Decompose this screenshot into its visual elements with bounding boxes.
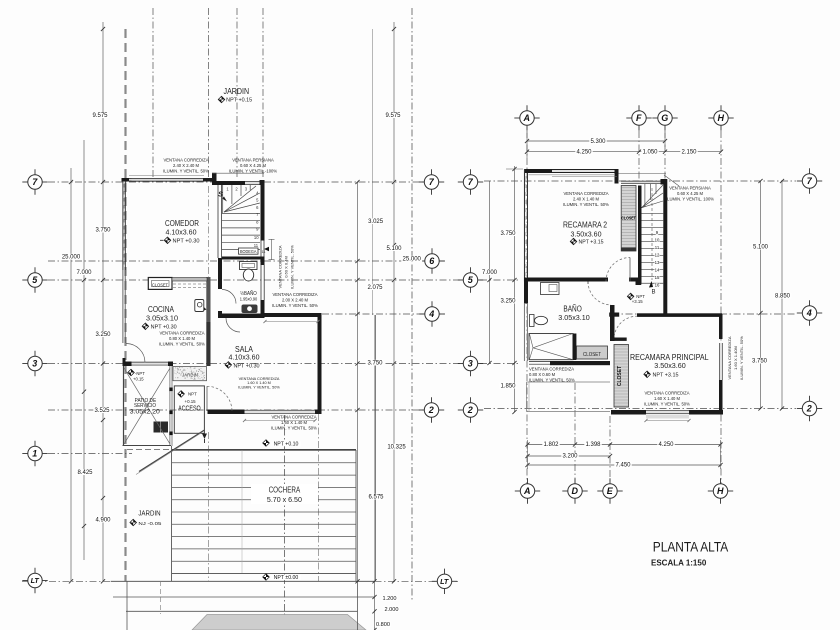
svg-text:15: 15 <box>655 275 660 280</box>
svg-text:3.200: 3.200 <box>562 454 578 460</box>
svg-text:G: G <box>661 113 668 123</box>
svg-text:A: A <box>522 113 530 123</box>
svg-text:CLOSET: CLOSET <box>621 216 636 222</box>
svg-text:3: 3 <box>468 359 473 369</box>
svg-text:14: 14 <box>655 268 660 273</box>
svg-text:4.250: 4.250 <box>658 442 674 448</box>
svg-text:ILUMIN. Y VENTIL. 50%: ILUMIN. Y VENTIL. 50% <box>739 336 744 380</box>
svg-text:A: A <box>523 486 531 496</box>
svg-text:ILUMIN. Y VENTIL.-100%: ILUMIN. Y VENTIL.-100% <box>229 169 278 174</box>
svg-text:ILUMIN. Y VENTIL. 50%: ILUMIN. Y VENTIL. 50% <box>159 342 205 347</box>
svg-text:NJ -0.05: NJ -0.05 <box>138 521 161 527</box>
svg-text:2.00 X 2.40 M: 2.00 X 2.40 M <box>282 298 309 303</box>
svg-text:10: 10 <box>254 235 259 240</box>
svg-text:D: D <box>571 486 578 496</box>
svg-text:7.000: 7.000 <box>482 270 498 276</box>
svg-text:4: 4 <box>428 309 434 319</box>
svg-text:16: 16 <box>655 283 660 288</box>
svg-text:25.000: 25.000 <box>403 257 422 263</box>
svg-text:JARDIN: JARDIN <box>138 508 160 517</box>
svg-text:VENTANA CORREDIZA: VENTANA CORREDIZA <box>163 158 208 163</box>
svg-text:1.95x0.90: 1.95x0.90 <box>240 296 258 301</box>
svg-text:COCHERA: COCHERA <box>269 485 301 494</box>
svg-text:9.575: 9.575 <box>385 113 401 119</box>
svg-text:5.300: 5.300 <box>590 139 606 145</box>
svg-text:ILUMIN. Y VENTIL. 50%: ILUMIN. Y VENTIL. 50% <box>272 303 318 308</box>
svg-text:8.850: 8.850 <box>775 294 791 300</box>
svg-text:VENTANA PERSIANA: VENTANA PERSIANA <box>232 158 274 163</box>
svg-text:JARDIN: JARDIN <box>182 372 198 378</box>
svg-text:5.100: 5.100 <box>753 245 769 251</box>
svg-text:3.05x2.20: 3.05x2.20 <box>130 409 160 416</box>
svg-text:LT: LT <box>440 577 449 586</box>
svg-text:5.70 x 6.50: 5.70 x 6.50 <box>267 495 302 504</box>
svg-text:3.50x3.60: 3.50x3.60 <box>654 361 685 370</box>
svg-text:BODEGA: BODEGA <box>240 249 257 254</box>
svg-text:3.250: 3.250 <box>95 332 111 338</box>
svg-text:ILUMIN. Y VENTIL. 50%: ILUMIN. Y VENTIL. 50% <box>644 402 690 407</box>
svg-text:0.60 X 4.25 M: 0.60 X 4.25 M <box>240 163 267 168</box>
svg-text:3: 3 <box>32 359 37 369</box>
svg-text:1.050: 1.050 <box>642 150 658 156</box>
svg-text:ILUMIN. Y VENTIL. 50%: ILUMIN. Y VENTIL. 50% <box>563 202 609 207</box>
svg-text:RECAMARA 2: RECAMARA 2 <box>563 220 607 230</box>
svg-text:4.10x3.60: 4.10x3.60 <box>229 352 260 361</box>
svg-text:2: 2 <box>467 405 473 415</box>
svg-text:NPT +0.30: NPT +0.30 <box>151 324 177 330</box>
svg-text:NPT +0.10: NPT +0.10 <box>274 441 299 447</box>
svg-text:3.750: 3.750 <box>367 361 383 367</box>
svg-text:5.100: 5.100 <box>386 246 402 252</box>
svg-text:0.80 X 0.60 M: 0.80 X 0.60 M <box>529 372 556 377</box>
svg-text:0.800: 0.800 <box>376 622 390 628</box>
svg-text:3.750: 3.750 <box>500 231 516 237</box>
svg-text:2.40 X 2.40 M: 2.40 X 2.40 M <box>173 163 200 168</box>
svg-text:NPT +3.15: NPT +3.15 <box>579 240 604 246</box>
svg-text:11: 11 <box>655 245 660 250</box>
svg-text:+3.15: +3.15 <box>632 299 643 304</box>
svg-text:H: H <box>717 486 724 496</box>
svg-text:VENTANA CORREDIZA: VENTANA CORREDIZA <box>271 415 316 420</box>
svg-text:2.40 X 1.40 M: 2.40 X 1.40 M <box>573 197 600 202</box>
svg-text:NPT +0.30: NPT +0.30 <box>173 238 200 244</box>
svg-text:VENTANA CORREDIZA: VENTANA CORREDIZA <box>272 292 317 297</box>
svg-text:10.325: 10.325 <box>387 445 406 451</box>
svg-text:4.10x3.60: 4.10x3.60 <box>166 228 197 237</box>
svg-text:ESCALA 1:150: ESCALA 1:150 <box>651 559 707 568</box>
svg-text:4: 4 <box>806 308 812 318</box>
svg-text:ACCESO: ACCESO <box>178 403 201 412</box>
svg-text:VENTANA CORREDIZA: VENTANA CORREDIZA <box>278 245 283 288</box>
svg-text:S: S <box>218 192 223 199</box>
svg-text:1.398: 1.398 <box>585 442 601 448</box>
svg-text:3.250: 3.250 <box>500 299 516 305</box>
svg-text:VENTANA CORREDIZA: VENTANA CORREDIZA <box>644 391 689 396</box>
svg-text:VENTANA CORREDIZA: VENTANA CORREDIZA <box>563 191 608 196</box>
svg-text:CLOSET: CLOSET <box>152 283 168 289</box>
svg-text:NPT +0.15: NPT +0.15 <box>226 98 252 104</box>
svg-text:1.200: 1.200 <box>383 596 397 602</box>
svg-text:2.075: 2.075 <box>367 285 383 291</box>
svg-text:3.525: 3.525 <box>94 408 110 414</box>
svg-text:9.575: 9.575 <box>92 113 108 119</box>
svg-text:BAÑO: BAÑO <box>563 304 581 314</box>
svg-text:ILUMIN. Y VENTIL. 50%: ILUMIN. Y VENTIL. 50% <box>271 426 317 431</box>
svg-text:+0.15: +0.15 <box>133 377 144 382</box>
svg-text:3.05x3.10: 3.05x3.10 <box>558 315 590 322</box>
svg-text:VENTANA CORREDIZA: VENTANA CORREDIZA <box>529 367 574 372</box>
svg-text:4.250: 4.250 <box>576 150 592 156</box>
svg-text:ILUMIN. Y VENTIL. 50%: ILUMIN. Y VENTIL. 50% <box>529 378 575 383</box>
svg-text:B: B <box>651 290 655 296</box>
svg-text:+0.15: +0.15 <box>185 399 197 404</box>
svg-text:1.850: 1.850 <box>500 384 516 390</box>
svg-text:10: 10 <box>655 238 660 243</box>
svg-text:LT: LT <box>31 576 40 585</box>
svg-text:ILUMIN. Y VENTIL. 50%: ILUMIN. Y VENTIL. 50% <box>238 385 280 389</box>
svg-text:NPT: NPT <box>188 392 197 397</box>
svg-text:3.750: 3.750 <box>95 228 111 234</box>
svg-text:11: 11 <box>254 243 259 248</box>
svg-text:8.425: 8.425 <box>77 470 93 476</box>
svg-text:NPT +0.30: NPT +0.30 <box>234 363 260 369</box>
svg-text:VENTANA CORREDIZA: VENTANA CORREDIZA <box>159 331 204 336</box>
svg-text:1.60 X 1.40M: 1.60 X 1.40M <box>733 346 738 370</box>
svg-text:NPT ±0.00: NPT ±0.00 <box>274 575 299 581</box>
svg-text:2: 2 <box>806 404 812 414</box>
svg-text:0.80 X 1.40 M: 0.80 X 1.40 M <box>169 336 196 341</box>
svg-text:VENTANA PERSIANA: VENTANA PERSIANA <box>669 186 711 191</box>
svg-text:COCINA: COCINA <box>148 304 174 314</box>
svg-text:F: F <box>636 113 642 123</box>
svg-text:2.150: 2.150 <box>681 150 697 156</box>
svg-text:1.60 X 1.40 M: 1.60 X 1.40 M <box>654 396 681 401</box>
svg-text:0.60 X 4.25 M: 0.60 X 4.25 M <box>677 191 704 196</box>
svg-text:COMEDOR: COMEDOR <box>165 218 199 228</box>
svg-text:ILUMIN. Y VENTIL. 100%: ILUMIN. Y VENTIL. 100% <box>666 197 714 202</box>
svg-text:E: E <box>607 486 614 496</box>
svg-text:2.000: 2.000 <box>385 607 399 613</box>
svg-text:ILUMIN. Y VENTIL. 50%: ILUMIN. Y VENTIL. 50% <box>163 169 209 174</box>
svg-text:JARDIN: JARDIN <box>224 87 250 96</box>
svg-text:PLANTA ALTA: PLANTA ALTA <box>653 540 729 555</box>
svg-text:12: 12 <box>655 253 660 258</box>
svg-text:7.450: 7.450 <box>615 463 631 469</box>
svg-text:H: H <box>717 113 724 123</box>
svg-text:7.000: 7.000 <box>76 270 92 276</box>
svg-text:3.50x3.60: 3.50x3.60 <box>571 229 602 238</box>
svg-text:3.750: 3.750 <box>752 359 768 365</box>
svg-text:0.60 X 0.4M: 0.60 X 0.4M <box>284 256 289 278</box>
svg-text:11: 11 <box>262 250 266 254</box>
svg-text:4.900: 4.900 <box>95 518 111 524</box>
svg-text:ILUMIN. Y VENTIL. 50%: ILUMIN. Y VENTIL. 50% <box>290 245 295 289</box>
svg-text:1: 1 <box>32 449 37 459</box>
svg-text:-NPT: -NPT <box>135 371 145 376</box>
svg-text:CLOSET: CLOSET <box>583 352 602 358</box>
svg-text:NPT +3.15: NPT +3.15 <box>653 373 679 379</box>
svg-text:2: 2 <box>428 405 434 415</box>
svg-text:VENTANA CORREDIZA: VENTANA CORREDIZA <box>727 336 732 379</box>
svg-text:13: 13 <box>655 260 660 265</box>
svg-text:3.025: 3.025 <box>368 219 384 225</box>
svg-text:3.05x3.10: 3.05x3.10 <box>146 314 178 323</box>
svg-text:6.575: 6.575 <box>368 495 384 501</box>
svg-text:CLOSET: CLOSET <box>617 366 623 386</box>
svg-text:1.60 X 1.40 M: 1.60 X 1.40 M <box>281 420 308 425</box>
svg-text:1.802: 1.802 <box>543 442 559 448</box>
svg-text:25.000: 25.000 <box>62 255 81 261</box>
